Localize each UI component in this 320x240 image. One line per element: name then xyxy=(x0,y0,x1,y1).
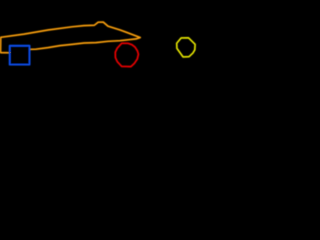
hull line nub poking past square left edge xyxy=(9,52,11,54)
polygon body B1 (orange car-like hull) xyxy=(1,22,141,53)
physics debug-draw canvas xyxy=(0,0,200,200)
box body B2 (blue square, black fill occludes hull line) xyxy=(10,46,30,65)
circle body B3 (red wheel, polygonized circle) xyxy=(115,43,138,66)
circle body B4 (yellow wheel, polygonized circle) xyxy=(177,38,195,57)
